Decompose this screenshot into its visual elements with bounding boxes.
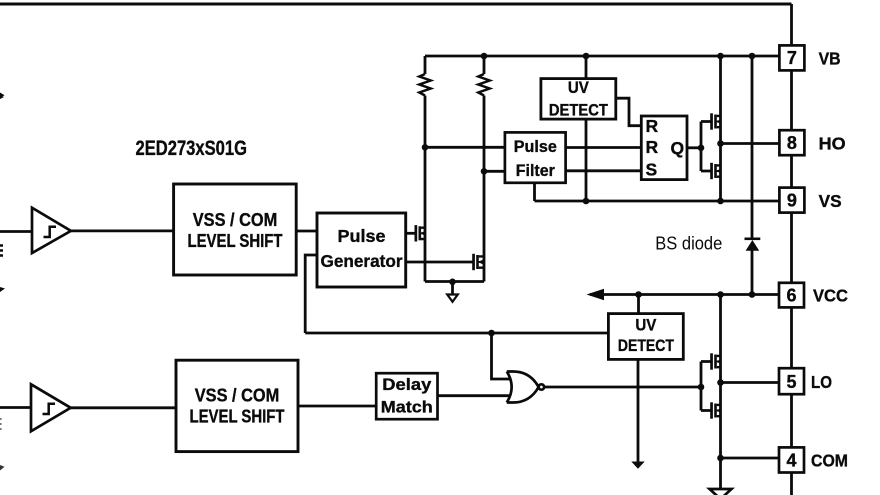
pin column vertical segments <box>790 70 793 495</box>
transistor M2 <box>472 254 484 270</box>
latch box <box>641 116 687 180</box>
transistor HO high <box>710 113 721 129</box>
node UV1 stub on VS rail <box>583 198 590 205</box>
wire branch down to NOR top input <box>492 333 512 379</box>
pin 9 box <box>779 188 804 213</box>
wire delay match to NOR <box>438 394 512 397</box>
pin 4 box <box>779 447 804 472</box>
pin 8 box <box>779 130 804 155</box>
wire COM junction to pin 4 <box>721 457 780 460</box>
svg-text:UV: UV <box>635 316 657 335</box>
resistor R2 zigzag <box>478 74 489 96</box>
svg-text:LEVEL SHIFT: LEVEL SHIFT <box>188 231 283 251</box>
level shift box 1 <box>174 184 297 275</box>
level shift box 2 <box>176 360 298 451</box>
node R1 to pulse filter junction <box>422 144 429 151</box>
node R2 to pulse filter junction <box>481 168 488 175</box>
ground symbol (COM) <box>710 489 732 495</box>
wire LO gate vertical <box>701 362 712 411</box>
svg-text:R: R <box>646 137 659 157</box>
wire resistor R2 vertical / M2 channel <box>483 56 486 282</box>
pulse generator box <box>317 213 406 287</box>
wire UV detect 1 output to latch R1 <box>616 98 642 126</box>
svg-text:Filter: Filter <box>516 162 556 180</box>
transistor M1 <box>415 225 426 241</box>
wire pulse filter to latch S <box>566 169 642 172</box>
NOR gate U3 <box>507 372 544 403</box>
wire R1 node to pulse filter <box>425 146 505 149</box>
node LO output <box>717 379 724 386</box>
svg-text:S: S <box>646 160 658 180</box>
UV detect box 2 <box>608 314 683 360</box>
wire BS diode vertical top <box>751 56 754 238</box>
svg-text:LEVEL SHIFT: LEVEL SHIFT <box>190 407 285 427</box>
svg-text:DETECT: DETECT <box>549 101 609 120</box>
wire BS diode vertical bottom <box>751 251 754 295</box>
wire rail to UV detect 2 input <box>305 332 608 335</box>
svg-text:Generator: Generator <box>321 251 403 271</box>
svg-text:Delay: Delay <box>382 376 432 394</box>
wire LO driver vertical VCC to COM <box>719 295 722 490</box>
wire stub to ground <box>451 282 454 295</box>
svg-text:Pulse: Pulse <box>338 226 386 246</box>
svg-text:9: 9 <box>787 191 797 211</box>
wire HO gate vertical <box>701 122 712 172</box>
svg-text:VSS / COM: VSS / COM <box>195 386 280 406</box>
frame top border <box>0 3 792 6</box>
schmitt buffer A2 <box>31 384 71 431</box>
wire UV detect 2 bottom stub <box>637 359 640 462</box>
node NOR output to gates <box>698 384 705 391</box>
delay match box <box>376 373 437 419</box>
wire R2 node to pulse filter <box>484 170 505 173</box>
wire UV detect 2 top stub <box>637 295 640 314</box>
svg-text:Match: Match <box>381 399 433 417</box>
wire buffer A2 to level shift 2 <box>71 406 176 409</box>
wire resistor R1 vertical / M1 channel <box>424 56 427 282</box>
node BS diode top <box>749 53 756 60</box>
svg-text:LO: LO <box>811 372 832 392</box>
node HO driver top <box>717 53 724 60</box>
pin 7 box <box>779 45 804 70</box>
svg-text:2ED273xS01G: 2ED273xS01G <box>136 137 248 160</box>
arrow VCC pointing left <box>587 289 605 300</box>
wire level shift 1 to pulse generator <box>296 230 317 233</box>
wire pulse generator lower-left loop down <box>305 255 317 333</box>
frame right border drop to pin 7 <box>790 4 793 45</box>
ground symbol (pulse generator) <box>447 295 458 302</box>
node HO driver on VS rail <box>717 198 724 205</box>
svg-text:8: 8 <box>787 133 797 153</box>
node UV2 top stub <box>635 291 642 298</box>
svg-text:6: 6 <box>786 286 796 306</box>
VCC rail <box>590 293 779 296</box>
BS diode symbol <box>745 239 761 251</box>
svg-text:Pulse: Pulse <box>514 138 557 156</box>
svg-text:UV: UV <box>568 78 590 97</box>
schmitt hysteresis glyph A2 <box>43 404 56 414</box>
schmitt hysteresis glyph A1 <box>44 227 57 237</box>
left partial mark 2 (E-like) <box>0 246 3 256</box>
UV detect box 1 <box>541 79 616 120</box>
svg-text:Q: Q <box>671 138 685 158</box>
svg-text:VS: VS <box>819 191 842 211</box>
schmitt buffer A1 <box>32 208 71 253</box>
node junction NOR branch <box>488 330 495 337</box>
VS rail <box>535 200 780 203</box>
wire gate lead M2 <box>406 261 473 264</box>
wire UV detect 1 top stub <box>585 56 588 79</box>
left partial mark 5 (wedge) <box>0 465 5 471</box>
svg-text:COM: COM <box>811 451 848 471</box>
transistor HO low <box>710 163 721 179</box>
wire gate lead M1 <box>406 232 415 235</box>
svg-text:5: 5 <box>786 372 796 392</box>
transistor LO high <box>710 353 721 369</box>
svg-text:HO: HO <box>819 134 846 154</box>
svg-text:BS diode: BS diode <box>655 233 722 254</box>
node BS diode bottom <box>749 291 756 298</box>
wire NOR output to LO gates <box>544 386 701 389</box>
node HO output <box>717 140 724 147</box>
left partial mark 4 (faint E-like) <box>0 419 2 429</box>
svg-text:4: 4 <box>786 451 796 471</box>
wire latch Q output <box>687 146 701 149</box>
wire source rail M1 M2 <box>425 280 484 283</box>
wire pulse filter to latch R <box>566 146 642 149</box>
svg-text:VCC: VCC <box>813 286 848 306</box>
pulse filter box <box>505 132 566 182</box>
node Q to gates <box>698 145 705 152</box>
pin 5 box <box>779 368 804 394</box>
arrow down below UV detect 2 <box>631 462 644 469</box>
node source rail center <box>449 279 456 286</box>
wire HO output to pin 8 <box>721 142 780 145</box>
svg-text:7: 7 <box>787 48 797 68</box>
wire pulse filter bottom to VS rail <box>533 183 536 201</box>
node UV1 top <box>583 53 590 60</box>
node COM junction <box>717 455 724 462</box>
wire HO driver vertical VB to VS <box>719 56 722 201</box>
wire HIN input <box>0 230 32 233</box>
wire LIN input <box>0 406 31 409</box>
left partial mark 1 (cut text top-left) <box>0 93 5 100</box>
svg-text:DETECT: DETECT <box>618 336 675 355</box>
wire LO output to pin 5 <box>721 381 780 384</box>
resistor R1 zigzag <box>419 74 430 96</box>
wire UV detect 1 bottom stub to VS rail <box>585 119 588 201</box>
svg-text:VB: VB <box>819 49 841 69</box>
left partial mark 3 (wedge) <box>0 287 5 292</box>
node LO driver top <box>717 291 724 298</box>
pin 6 box <box>779 283 804 308</box>
VB top rail <box>425 55 779 58</box>
transistor LO low <box>710 402 721 418</box>
svg-text:R: R <box>646 116 659 136</box>
wire level shift 2 to delay match <box>298 405 376 408</box>
wire buffer A1 to level shift 1 <box>71 229 174 232</box>
node R2 top <box>481 53 488 60</box>
svg-text:VSS / COM: VSS / COM <box>193 210 278 230</box>
